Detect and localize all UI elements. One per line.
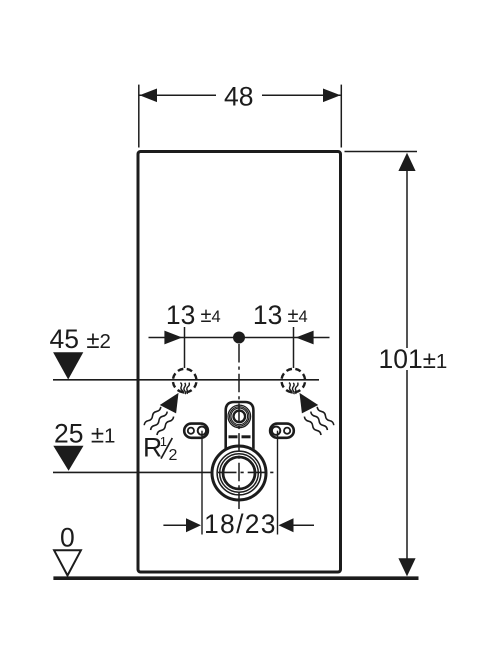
dim 13: right arrowhead xyxy=(296,331,314,345)
dim 101: bottom arrowhead xyxy=(398,558,415,576)
water flow squiggles right xyxy=(316,406,334,426)
drain ring 4 xyxy=(223,457,255,489)
water inlet dashed circle right xyxy=(282,369,306,393)
level 45: horizontal line xyxy=(53,379,319,381)
dim 101: top arrowhead xyxy=(398,153,415,171)
flush pipe housing (vertical pill) xyxy=(226,402,254,449)
water squiggle marks inside left circle xyxy=(180,382,184,393)
level 25: filled triangle xyxy=(53,446,83,471)
water flow arrow left xyxy=(160,393,179,414)
svg-text:2: 2 xyxy=(169,447,178,464)
svg-text:13: 13 xyxy=(166,300,195,330)
dim 48: right arrowhead xyxy=(323,89,341,103)
dim 48: left extension line xyxy=(138,85,140,148)
dim 101: top extension line xyxy=(345,151,418,153)
dim 13: centre dot xyxy=(233,332,245,344)
water inlet dashed circle left xyxy=(173,369,197,393)
level 45: filled triangle xyxy=(53,352,83,379)
flush pipe tick marks xyxy=(229,435,238,438)
drain outlet disc xyxy=(211,445,268,502)
dim 48: right extension line xyxy=(340,85,342,148)
datum 0: open triangle xyxy=(54,550,81,575)
slot extension line left xyxy=(201,431,203,535)
level 25: horizontal line (drain centre line) xyxy=(53,471,214,473)
drain ring 3 xyxy=(220,454,259,493)
dim 48: left arrowhead xyxy=(140,89,158,103)
dim 18/23: left tail and arrowhead xyxy=(163,524,187,526)
svg-text:±4: ±4 xyxy=(288,305,308,327)
ground line xyxy=(53,576,418,580)
module outline rectangle xyxy=(138,152,341,573)
svg-text:18/23: 18/23 xyxy=(204,509,277,539)
drain outer ring xyxy=(212,446,266,500)
dim 48: dimension line xyxy=(140,94,217,96)
dim 13/13: dimension line xyxy=(149,337,330,339)
svg-text:0: 0 xyxy=(60,523,75,553)
dim 13: left arrowhead xyxy=(164,331,182,345)
dim 18/23: right tail and arrowhead xyxy=(293,524,315,526)
svg-text:48: 48 xyxy=(224,82,253,112)
drain ring 2 xyxy=(217,451,261,495)
svg-text:13: 13 xyxy=(253,300,282,330)
water flow arrow right xyxy=(300,393,319,414)
centre line vertical (dash-dot) xyxy=(238,344,240,509)
dim 101: vertical dimension line xyxy=(406,170,408,348)
svg-text:1: 1 xyxy=(160,434,167,449)
dim 13: right extension line xyxy=(293,327,295,368)
flush pipe rings xyxy=(228,405,251,428)
dim 13: left extension line xyxy=(184,327,186,368)
fixing slot right xyxy=(270,424,294,438)
svg-text:±4: ±4 xyxy=(201,305,221,327)
fixing slot left xyxy=(184,424,208,438)
slot extension line right xyxy=(277,431,279,535)
water flow squiggles left xyxy=(143,406,161,426)
water squiggle marks inside right circle xyxy=(288,382,292,393)
